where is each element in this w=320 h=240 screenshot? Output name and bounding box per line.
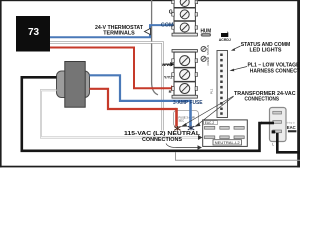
screw terminal Y/Y2: [180, 70, 190, 80]
white wire branch arrow to W/W1: [164, 63, 171, 65]
LED indicator COMM: [201, 56, 206, 61]
svg-text:LED LIGHTS: LED LIGHTS: [250, 48, 282, 54]
svg-text:NEUTRAL-L2: NEUTRAL-L2: [215, 141, 240, 145]
svg-text:G: G: [169, 10, 173, 16]
black arrowhead at neutral wire end: [198, 135, 203, 140]
leader line to PL1: [232, 67, 248, 71]
board inner gray line with curl: [152, 0, 158, 95]
wire: red 24VAC secondary from transformer to fuse terminal: [90, 89, 177, 109]
wire: 115VAC black line wire (thick) from transformer to junction box: [22, 77, 262, 151]
svg-text:ACRDJ: ACRDJ: [219, 38, 231, 42]
svg-text:HARNESS CONNECT: HARNESS CONNECT: [250, 68, 300, 74]
leader lines to fuse terminals: [183, 96, 234, 126]
svg-text:L: L: [272, 142, 274, 146]
HUM terminal bar: [201, 33, 211, 36]
fuse holder outline: [174, 111, 199, 127]
thermostat box 73: [16, 16, 50, 52]
border frame: [0, 0, 300, 167]
ACRDJ jumper: [221, 33, 228, 37]
screw terminal R: [180, 84, 190, 94]
wire: white thermostat wire from 73 down to neutral: [50, 42, 163, 130]
svg-text:TERMINALS: TERMINALS: [103, 31, 135, 37]
svg-text:CONNECTIONS: CONNECTIONS: [142, 137, 182, 143]
gray neutral wire bottom right: [176, 152, 301, 160]
junction box (right component): [270, 108, 287, 147]
red arrowhead into R terminal: [171, 85, 177, 91]
wire: 115VAC black line wire from junction box bottom to right edge: [277, 133, 300, 152]
svg-text:EAC-2: EAC-2: [205, 121, 215, 125]
wire: red thermostat wire from 73 to R terminal: [50, 48, 172, 89]
svg-text:73: 73: [28, 27, 40, 38]
svg-text:SEC: SEC: [179, 119, 185, 123]
svg-text:COMM: COMM: [206, 56, 210, 65]
wire: blue thermostat wire from 73 to COM terminal: [50, 25, 175, 37]
svg-text:Y/Y2: Y/Y2: [164, 74, 173, 79]
terminal lug blue wire: [188, 126, 194, 131]
leader to NEUTRAL-L2: [166, 144, 199, 148]
wire segment into junction box middle terminal: [261, 122, 274, 125]
screw terminal W/W1: [180, 56, 190, 66]
svg-text:PL1: PL1: [210, 88, 214, 94]
LED indicator STATUS: [201, 46, 206, 51]
leader arrow to wires: [145, 28, 151, 34]
terminal lug red wire: [174, 126, 180, 131]
transformer T1: [57, 62, 90, 108]
screw terminal G: [180, 10, 189, 19]
svg-text:W/W1: W/W1: [162, 62, 173, 67]
connector PL1: [217, 51, 228, 118]
EAC terminal strip: [203, 120, 248, 146]
svg-text:CONNECTIONS: CONNECTIONS: [245, 96, 280, 102]
svg-text:R: R: [169, 89, 172, 94]
screw terminal (top, cut off): [180, 0, 189, 7]
wire: white neutral wire from transformer to EAC strip: [41, 90, 199, 137]
svg-text:COM: COM: [161, 22, 174, 28]
screw terminal COM: [180, 23, 189, 32]
svg-text:EAC: EAC: [287, 125, 296, 130]
wire: blue 24VAC secondary from transformer to fuse terminal: [90, 75, 191, 101]
svg-text:STATUS: STATUS: [206, 45, 210, 55]
terminal block TB2 (G / COM): [172, 0, 198, 36]
leader line to LEDs: [233, 46, 241, 50]
svg-text:3-AMP FUSE: 3-AMP FUSE: [173, 100, 203, 106]
terminal block TB1 (W/W1, Y/Y2, R): [172, 50, 198, 99]
